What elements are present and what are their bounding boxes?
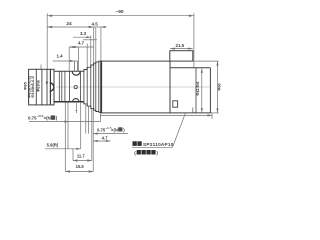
ext line x100.9 top — [100, 28, 102, 62]
svg-text:21.5: 21.5 — [176, 43, 185, 48]
svg-text:0.75: 0.75 — [97, 127, 106, 132]
svg-text:4.7: 4.7 — [102, 135, 108, 140]
dim 24 line — [47, 26, 93, 28]
ext above nut — [40, 65, 42, 70]
pitch note left CJK blob — [51, 115, 55, 119]
centerline — [56, 86, 210, 88]
callout shelf — [132, 146, 173, 148]
svg-text:3.3: 3.3 — [80, 31, 87, 36]
far right ext bottom — [210, 112, 218, 114]
dim 4.7 line — [69, 46, 94, 48]
nut inner vertical x36.3 — [35, 69, 37, 105]
connector box — [170, 51, 193, 61]
ext line right x194 — [193, 13, 195, 68]
body left edge thick — [100, 61, 102, 113]
motor bottom tick — [192, 108, 194, 113]
motor top edge — [170, 67, 210, 69]
svg-text:×(N: ×(N — [111, 127, 118, 132]
motor section line — [195, 68, 197, 113]
far right dim line — [217, 61, 219, 113]
svg-text:11.7: 11.7 — [77, 153, 86, 158]
pitch note right CJK blob — [118, 127, 122, 131]
staircase bottom profile — [84, 102, 101, 113]
ext line x78.5 upper — [78, 47, 80, 71]
svg-text:24: 24 — [66, 21, 72, 27]
ext line x93.7 — [93, 28, 95, 66]
motor terminal small rect — [173, 101, 178, 107]
dim 3.3 line — [73, 36, 91, 38]
svg-text:Φ60: Φ60 — [218, 83, 222, 90]
pitch note left leader — [29, 121, 100, 123]
dim 4.5 arrow — [101, 26, 105, 28]
dim 3.3 arrow — [86, 36, 91, 38]
svg-text:1.4: 1.4 — [56, 54, 63, 59]
svg-text:Φ42.5h6: Φ42.5h6 — [196, 81, 200, 95]
ext line x69.2 upper — [68, 47, 70, 71]
svg-text:Φ105h6-0.5: Φ105h6-0.5 — [30, 75, 35, 97]
shaft bottom edge — [54, 101, 84, 103]
bottom ext verticals — [65, 103, 93, 172]
nut circle hole — [50, 83, 54, 91]
svg-text:5.9(R): 5.9(R) — [47, 142, 59, 147]
nut inner vertical x50.4 — [49, 69, 51, 105]
body outline — [101, 61, 170, 113]
dim 4.7 bottom line — [93, 140, 110, 142]
motor right edge — [209, 68, 211, 113]
dim 3.3 stub — [83, 39, 97, 41]
ext line x87.2 short — [86, 44, 88, 70]
dim 21.5 arrows — [170, 48, 192, 50]
svg-text:0.75: 0.75 — [28, 116, 37, 121]
dim 21.5 line — [170, 48, 192, 50]
svg-text:~90: ~90 — [115, 9, 123, 15]
shaft dome lower — [73, 99, 79, 102]
svg-text:4.5: 4.5 — [92, 22, 99, 27]
overall bottom dim ext right — [211, 114, 213, 120]
staircase verticals full — [84, 62, 99, 112]
dim 4.5 line — [94, 26, 107, 28]
ext lines groove 1.4 — [74, 61, 76, 71]
svg-text:15.5: 15.5 — [76, 164, 85, 169]
dim ~90 arrows — [47, 15, 194, 17]
svg-text:Φ63h6: Φ63h6 — [37, 80, 41, 92]
dim 15.5 line — [65, 171, 93, 173]
motor inner right dim — [201, 69, 203, 113]
dim ~90 line — [47, 15, 194, 17]
shaft groove verticals — [59, 71, 80, 102]
svg-text:×(N: ×(N — [44, 116, 51, 121]
svg-text:4.7: 4.7 — [78, 40, 85, 45]
dim 11.7 line — [73, 160, 92, 162]
ext line x90.8 — [90, 36, 92, 68]
nut inner vertical x41.9 — [41, 69, 43, 105]
svg-text:SP2110AP10: SP2110AP10 — [143, 142, 174, 147]
shaft hole circle upper — [74, 86, 77, 89]
circlip groove notch — [72, 71, 80, 75]
shaft top edge — [54, 70, 84, 72]
nut inner vertical x47 — [46, 69, 48, 105]
overall bottom dim line — [100, 114, 212, 116]
staircase top profile — [84, 61, 101, 71]
dim 1.4 line — [53, 60, 78, 62]
dim 1.4 arrow — [70, 60, 75, 62]
body left ext down — [99, 113, 101, 121]
motor bottom edge — [170, 112, 211, 114]
ext line x95.8 — [95, 28, 97, 64]
callout text line1 CJK blobs — [133, 141, 137, 146]
dim 5.9 shelf — [45, 148, 81, 150]
ext line left x47 — [46, 13, 48, 69]
pitch note right leader — [93, 133, 128, 135]
far right ext top — [193, 60, 219, 62]
dim 4.7 arrows — [69, 46, 78, 48]
callout leader diagonal — [173, 113, 186, 147]
callout text line2 CJK blobs — [137, 150, 141, 155]
dim 24 arrows — [47, 26, 93, 28]
nut outer box — [29, 69, 54, 105]
